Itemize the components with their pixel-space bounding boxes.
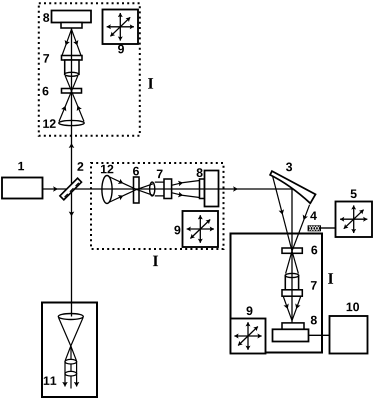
rays: barrel 7 to detector 8 (bottom-right) <box>283 297 292 321</box>
rays: parallel output in box 11 <box>64 361 66 387</box>
lens doublet (box 11): lower <box>65 371 77 376</box>
detector 8 (bottom): body <box>273 329 309 341</box>
label 12 (top) <box>43 119 55 128</box>
label 7 (top) <box>43 54 49 62</box>
lens barrel 7 (top): tube <box>65 60 79 74</box>
polarization box 5 <box>336 202 373 238</box>
lens (box 11, collimating) <box>58 314 83 320</box>
detector 8 (middle): window <box>200 179 205 199</box>
beam: vertical axis mirror to detector (right) <box>291 189 293 323</box>
wire: modulator 4 to box 5 <box>321 227 336 229</box>
beamsplitter 2 <box>60 178 82 200</box>
box 10 <box>330 316 368 354</box>
rays: mirror 3 to focus at aperture 6 (right) <box>273 176 299 273</box>
detector 8 (top): body <box>52 11 92 23</box>
polarization box 9 (middle) <box>183 211 219 247</box>
dotted enclosure I (top-left unit) <box>39 3 140 136</box>
laser 1 <box>2 178 43 199</box>
label I (bottom-right) <box>328 273 333 283</box>
rays: crossing at aperture 6 (top) <box>65 76 84 122</box>
label 11 <box>44 376 57 384</box>
polarization arrows 9 (top) <box>107 13 134 41</box>
polarization box 9 (top) <box>103 10 139 45</box>
label 7 (middle) <box>157 170 163 178</box>
aperture 6 (top) <box>62 89 82 94</box>
polarization arrows 9 (middle) <box>187 215 214 243</box>
beam: vertical axis up from beamsplitter <box>71 29 73 190</box>
label 8 (bottom) <box>311 316 317 325</box>
dotted enclosure I (middle unit) <box>91 163 224 249</box>
label 10 <box>347 303 359 312</box>
lens 12 (middle) <box>102 176 112 204</box>
label 9 (top) <box>118 45 124 54</box>
beam: vertical axis down to box 11 <box>71 189 73 317</box>
label 8 (top) <box>43 13 49 22</box>
label 4 <box>310 211 317 219</box>
label 6 (bottom-right) <box>311 246 317 255</box>
detector 8 (middle): body <box>205 171 219 207</box>
enclosure I (bottom-right unit, solid box) <box>231 234 323 353</box>
beam: axis through box 11 <box>70 346 72 389</box>
lens 12 (top) <box>59 120 84 125</box>
label 2 <box>77 162 83 171</box>
polarization box 9 (bottom) <box>231 319 266 354</box>
box 11 (bottom-left unit) <box>42 303 97 398</box>
lens barrel 7 (top): flange <box>62 56 83 61</box>
label 9 (bottom) <box>247 306 253 315</box>
label I (top) <box>148 78 153 88</box>
label 3 <box>286 163 292 172</box>
beam: horizontal axis laser to mirror <box>43 188 293 190</box>
detector 8 (bottom): window <box>282 323 304 329</box>
label 6 (middle) <box>133 167 139 176</box>
lens barrel 7 (middle): lens <box>150 182 155 196</box>
lens barrel 7 (middle): flange <box>164 179 172 199</box>
detector 8 (top): window <box>61 23 82 29</box>
aperture 6 (middle) <box>134 177 140 203</box>
lens barrel 7 (bottom-right): tube <box>285 276 298 290</box>
lens barrel 7 (top): lens <box>65 72 79 76</box>
rays: lens 12 to aperture 6 to lens 7 (middle) <box>109 177 153 196</box>
mirror 3 (concave) <box>270 171 315 203</box>
rays: barrel 7 to detector 8 (middle) <box>172 181 200 186</box>
wire: detector 8 to box 10 <box>309 334 330 336</box>
label 6 (top) <box>43 87 49 96</box>
modulator 4 (hatched) <box>308 226 321 231</box>
rays: cone in box 11 <box>59 318 77 361</box>
rays: cone apex to barrel 7 (top) <box>62 29 72 55</box>
label 5 <box>351 190 357 199</box>
label I (middle) <box>153 256 158 266</box>
label 8 (middle) <box>197 168 203 177</box>
label 1 <box>18 162 24 170</box>
lens barrel 7 (middle): tube <box>155 182 164 196</box>
lens doublet (box 11): upper <box>65 359 77 364</box>
label 9 (middle) <box>174 226 180 235</box>
label 7 (bottom-right) <box>311 281 317 289</box>
label 12 (middle) <box>101 165 113 174</box>
polarization arrows 9 (bottom) <box>234 322 261 350</box>
polarization arrows 5 <box>340 205 367 233</box>
lens barrel 7 (bottom-right): flange <box>282 290 302 296</box>
lens barrel 7 (bottom-right): lens <box>285 273 298 277</box>
aperture 6 (bottom-right) <box>282 248 302 253</box>
beam arrow: middle box to mirror <box>224 188 238 190</box>
